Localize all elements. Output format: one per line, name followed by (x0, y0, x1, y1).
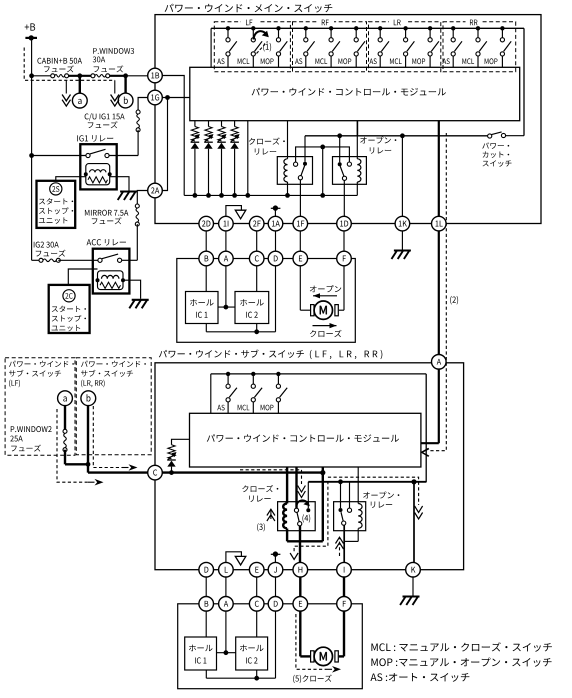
wire: open common to I (343, 525, 345, 562)
wire: D to bottom link (275, 266, 277, 332)
wire: B to IC1 (205, 266, 207, 292)
wire: ACC coil to ground (123, 280, 141, 299)
dashed flow path return (290, 481, 328, 560)
label: CABIN+B 50A fuse (37, 58, 82, 73)
sub control module box (190, 413, 421, 467)
label: RR AS (442, 58, 449, 64)
wire: link to D (275, 231, 277, 251)
switch RR-MOP (500, 26, 511, 67)
terminal a (main) (72, 73, 87, 108)
dashed arrow into module (422, 449, 429, 456)
wire: E to motor (300, 266, 311, 310)
label: legend AS (370, 673, 469, 682)
wire: close common to 1F (299, 180, 301, 216)
terminal a (sub) (58, 391, 73, 406)
wire: F to motor (339, 266, 344, 310)
label: LR MCL (390, 58, 402, 64)
connector L (sub row1) (219, 562, 234, 577)
label: group LF (241, 17, 258, 25)
wire: sub NO feed line (308, 479, 426, 508)
label: IG2 30A fuse (34, 242, 66, 257)
switch LF-MOP (276, 26, 287, 67)
dashed flow arrow (3) (267, 509, 275, 521)
wire: IC bottom bus (main) (206, 324, 275, 335)
label: sub control module (207, 434, 399, 442)
connector 1D (337, 216, 352, 231)
wire: A to IC link (218, 266, 235, 310)
label: 2C (63, 290, 75, 302)
sub switch (LR RR) dashed box (76, 358, 151, 455)
switch LF-MCL (251, 26, 262, 67)
wire: IC bottom bus (sub) (206, 670, 275, 681)
switch RF-MOP (354, 26, 365, 67)
hall IC2 box (main) (235, 292, 269, 324)
sub switch outer box (155, 363, 464, 570)
wire: NC-contact link (296, 145, 350, 198)
label: RR MOP (485, 58, 498, 64)
relay open (sub) box (334, 502, 366, 531)
connector E (main row2) (293, 251, 308, 266)
relay open (main) contacts (338, 162, 352, 180)
wire: switch supply bus (211, 27, 524, 29)
wire: diode ground bus (184, 194, 357, 196)
connector 1B (148, 68, 163, 83)
label: (3) (257, 523, 265, 531)
connector 2A (148, 183, 163, 198)
label: group RF (317, 17, 334, 25)
connector D (main row2) (268, 251, 283, 266)
wire: link to B (205, 231, 207, 251)
terminal b (main) (118, 73, 133, 108)
label: (1) (263, 43, 271, 52)
wire: 2A link to 1G node (162, 98, 167, 191)
connector E (sub row1) (249, 562, 264, 577)
resistor+diode chain 2 (204, 121, 213, 198)
switch sub-AS (226, 372, 237, 414)
unit 2C box (49, 285, 90, 333)
connector H (sub row1) (293, 562, 308, 577)
connector 1K (395, 216, 410, 231)
wire: C to IC2 (sub) (256, 611, 258, 637)
connector D (sub row1) (199, 562, 214, 577)
wire: sub open NC stub (349, 482, 351, 508)
switch LR-MOP (428, 26, 439, 67)
wire: IG1 coil to 2S (56, 177, 86, 181)
connector B (sub row2) (199, 597, 214, 612)
label: LF AS (217, 58, 224, 64)
relay close (main) contacts (294, 162, 308, 180)
dashed flow arrow up at I (336, 537, 344, 556)
terminal b (sub) (81, 391, 96, 406)
dashed flow arrow a (62, 80, 70, 106)
wire: B to IC1 (sub) (205, 611, 207, 637)
label: close relay (sub) (242, 485, 278, 502)
fuse P.WINDOW3 30A (91, 74, 110, 78)
control module U1 box (190, 67, 520, 120)
label: power cut switch (482, 142, 511, 166)
hall IC2 box (sub) (236, 637, 268, 670)
relay ACC coil+resistor (96, 271, 126, 290)
wire: battery vertical (29, 38, 34, 260)
dashed flow path right (328, 477, 423, 519)
switch group LR dashed box (369, 22, 441, 72)
wire: open common to 1D (343, 180, 345, 216)
wire: sub coil return bus (287, 467, 323, 541)
wire: sub link to C (256, 577, 258, 597)
label: start stop unit (2C) (52, 306, 86, 332)
dashed flow from +B (24, 48, 115, 81)
wire: D to bottom link (sub) (275, 611, 277, 678)
label+arrow: open direction (310, 285, 341, 298)
connector 1F (293, 216, 308, 231)
connector C (main row2) (249, 251, 264, 266)
connector F (main row2) (337, 251, 352, 266)
wire: K riser (413, 482, 415, 563)
label: (5) close (293, 675, 331, 684)
connector K (sub row1) (406, 562, 421, 577)
sub switch (LF) dashed box (5, 358, 75, 456)
label: group LR (389, 17, 406, 25)
label+arrow: close direction (310, 323, 342, 337)
dashed flow path (2) (422, 133, 447, 456)
relay close (main) coil (284, 121, 290, 198)
connector 2F (249, 216, 264, 231)
connector C (sub row2) (249, 597, 264, 612)
relay close (sub) contacts (294, 508, 310, 526)
label: IG1 relay (77, 135, 113, 142)
fuse P.WINDOW2 25A (63, 406, 67, 465)
ground below K (400, 577, 419, 605)
wire: sub switch bus (211, 374, 426, 482)
label: legend MCL (371, 642, 551, 652)
label: power window sub switch title (159, 349, 382, 359)
label: hall IC2 (sub) (240, 645, 264, 664)
switch RR-MCL (476, 26, 487, 67)
switch group RR dashed box (443, 22, 516, 72)
label: RF MOP (338, 58, 351, 64)
fuse C/U IG1 15A (136, 110, 140, 132)
wire: module pin to ground bus (245, 121, 250, 198)
annotation (4) arc arrow (297, 500, 310, 506)
wire: close common to H (299, 526, 301, 563)
motor assembly box (main) (177, 259, 355, 343)
label: hall IC1 (sub) (189, 645, 213, 664)
wire: sub NC feed (295, 467, 297, 508)
switch RF-MCL (329, 26, 340, 67)
wire: C to IC2 (256, 266, 258, 292)
sub chain resistor+diode (167, 439, 189, 475)
label: hall IC1 (main) (190, 299, 214, 318)
wire: supply bus (32, 75, 148, 77)
relay ACC switch (98, 254, 122, 262)
relay close (main) box (277, 157, 312, 185)
hall IC1 box (sub) (185, 637, 217, 670)
wire: ACC coil to 2C (68, 269, 97, 285)
wire: F to motor (sub) (339, 611, 344, 656)
wire: 1G to C/U fuse (138, 98, 148, 113)
switch RF-AS (304, 26, 315, 67)
switch sub-MCL (251, 372, 262, 414)
motor M (main) (311, 301, 339, 319)
wire: 2A to MIRROR fuse (137, 191, 147, 207)
label: hall IC2 (main) (240, 299, 264, 318)
connector B (main row2) (199, 251, 214, 266)
connector 2D (199, 216, 214, 231)
hall IC1 box (main) (186, 292, 219, 324)
label: open relay (sub) (363, 492, 399, 508)
resistor+diode chain 1 (191, 121, 200, 198)
wire: A to IC link (sub) (217, 611, 236, 655)
switch group RF dashed box (293, 22, 367, 72)
label: LR MOP (412, 58, 425, 64)
wire: 1G to module (162, 95, 190, 100)
label: sub switch LR RR (81, 361, 146, 388)
unit 2S box (37, 181, 76, 228)
symbol: J internal pin (271, 551, 281, 562)
symbol: L internal hook (226, 552, 246, 565)
wire: A line into module (421, 369, 439, 443)
connector A (main row2) (219, 251, 234, 266)
label: ACC relay (87, 239, 126, 246)
dashed flow arrow b (111, 80, 119, 106)
relay open (sub) coil (344, 467, 362, 541)
label: sub MOP (261, 405, 274, 411)
wire: a-line to b-line (65, 462, 90, 467)
connector 1I (219, 216, 234, 231)
relay IG1 switch (32, 149, 110, 157)
label: P.WINDOW2 fuse (10, 426, 51, 451)
wire: IG2 fuse to ACC relay (58, 259, 98, 261)
ground below 1K (392, 231, 411, 259)
wire: 1B feed riser (162, 76, 184, 196)
label: P.WINDOW3 30A fuse (93, 48, 134, 72)
connector F (sub row2) (337, 597, 352, 612)
wire: E to motor (sub) (300, 611, 311, 656)
relay open (main) box (333, 157, 367, 185)
terminal +B (25, 35, 37, 40)
ground ACC (129, 300, 148, 309)
relay ACC box (93, 249, 130, 294)
wire: 1K to feed line (401, 136, 403, 216)
wire: sub link to A (225, 577, 227, 597)
label: LF MOP (261, 58, 274, 64)
fuse MIRROR 7.5A (135, 204, 139, 226)
wire: battery to IG2 fuse (32, 259, 41, 261)
wire: link to F (343, 231, 345, 251)
wire: link to C (256, 231, 258, 251)
wire: 1L module line (438, 121, 440, 356)
symbol: 1I internal hook (226, 206, 246, 219)
main switch outer box (155, 15, 541, 224)
connector I (sub row1) (337, 562, 352, 577)
label: power window control module (252, 88, 446, 96)
motor M (sub) (311, 647, 339, 665)
label: 2S (50, 183, 62, 195)
annotation (1) dashed lever (257, 42, 268, 54)
label: sub switch LF (9, 361, 74, 388)
motor assembly box (sub) (178, 604, 363, 689)
switch LF-AS (226, 26, 237, 67)
symbol: 1A internal pin (271, 205, 281, 216)
resistor+diode chain 3 (217, 121, 226, 198)
wire: C bus (162, 470, 325, 475)
connector A (432, 355, 447, 370)
wire: link to A (225, 231, 227, 251)
relay IG1 box (80, 144, 116, 189)
resistor+diode chain 4 (230, 121, 239, 198)
dashed flow path (5) (296, 614, 341, 673)
switch LR-MCL (403, 26, 414, 67)
dashed flow a path (57, 409, 104, 486)
relay close (sub) box (278, 502, 316, 531)
wire: link to E (299, 231, 301, 251)
connector 1G (148, 90, 163, 105)
connector E (sub row2) (293, 597, 308, 612)
connector A (sub row2) (219, 597, 234, 612)
label: legend MOP (371, 657, 551, 666)
wire: NO-contact feed line (305, 121, 488, 163)
switch sub-MOP (276, 372, 287, 414)
label: (2) (450, 296, 458, 305)
label: RR MCL (462, 58, 474, 64)
wire: bus left drop to module (210, 28, 212, 67)
connector J (sub row1) (268, 562, 283, 577)
label: power window main switch title (165, 4, 333, 13)
label: MIRROR 7.5A fuse (85, 210, 128, 224)
label: group RR (466, 17, 483, 25)
wire: sub link to D (275, 577, 277, 597)
label: +B (25, 23, 36, 30)
label: (4) (302, 514, 310, 522)
label: LR AS (369, 58, 376, 64)
connector D (sub row2) (268, 597, 283, 612)
wire: bus right drop to power cut switch (523, 28, 525, 135)
label: open relay (main) (360, 137, 396, 154)
connector 1L (432, 216, 447, 231)
label: close relay (main) (249, 138, 285, 155)
label: RF MCL (315, 58, 327, 64)
connector 1A (268, 216, 283, 231)
power cut switch (488, 132, 524, 138)
dashed flow b path (93, 406, 137, 471)
wire: MIRROR fuse to ACC switch (122, 224, 138, 260)
dashed flow path relays (240, 470, 305, 498)
wire: b-line to C (88, 406, 148, 473)
fuse IG2 30A (39, 258, 60, 262)
relay open (sub) contacts (339, 508, 352, 525)
wire: sub link to B (205, 577, 207, 597)
relay open (main) coil (357, 136, 361, 196)
switch LR-AS (378, 26, 389, 67)
wire: fuse to IG1 switch (109, 130, 138, 156)
wire: sub link to F (343, 577, 345, 597)
label: LF MCL (238, 58, 250, 64)
wire: IG1 coil to ground (110, 177, 129, 191)
connector C (148, 465, 163, 480)
label: RF AS (295, 58, 302, 64)
switch RR-AS (451, 26, 462, 67)
relay IG1 coil+resistor (84, 164, 112, 185)
label: start stop unit (2S) (39, 198, 73, 224)
fuse CABIN+B 50A (51, 74, 69, 78)
label: sub MCL (238, 405, 250, 411)
label: sub AS (217, 405, 224, 411)
relay close (sub) coil (283, 467, 287, 541)
ground IG1 (118, 192, 137, 201)
wire: sub link to E (299, 577, 301, 597)
annotation (1) motion arc arrow (254, 31, 269, 40)
switch group LF dashed box (214, 22, 290, 72)
label: C/U IG1 15A fuse (85, 113, 125, 128)
